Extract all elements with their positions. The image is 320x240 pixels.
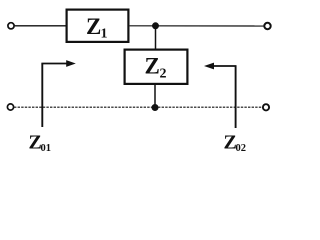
- label Z1: [86, 14, 108, 42]
- svg-text:01: 01: [41, 143, 52, 154]
- svg-text:Z: Z: [86, 14, 101, 39]
- svg-text:2: 2: [160, 67, 167, 82]
- terminal port1 bottom (open circle): [7, 104, 13, 110]
- svg-text:02: 02: [236, 143, 247, 154]
- svg-text:1: 1: [101, 27, 108, 42]
- arrow Z01 (looking right at port 1): [41, 60, 75, 127]
- wire top-right: [130, 25, 265, 27]
- label Z01: [29, 131, 52, 154]
- bottom wire (dashed scan look): [14, 106, 263, 108]
- terminal port2 top (open circle): [264, 23, 270, 29]
- junction dot bottom: [152, 104, 159, 111]
- arrow Z02 (looking left at port 2): [204, 63, 237, 128]
- junction dot top: [152, 22, 159, 29]
- wire Z2 to bottom junction: [154, 85, 156, 108]
- label Z2: [145, 54, 167, 82]
- label Z02: [224, 131, 247, 154]
- impedance Z1: [67, 10, 129, 42]
- terminal port1 top (open circle): [8, 23, 14, 29]
- impedance Z2: [125, 50, 188, 84]
- svg-text:Z: Z: [145, 54, 160, 79]
- wire junction to Z2: [155, 26, 157, 49]
- terminal port2 bottom (open circle): [263, 104, 269, 110]
- wire top-left: [15, 25, 66, 27]
